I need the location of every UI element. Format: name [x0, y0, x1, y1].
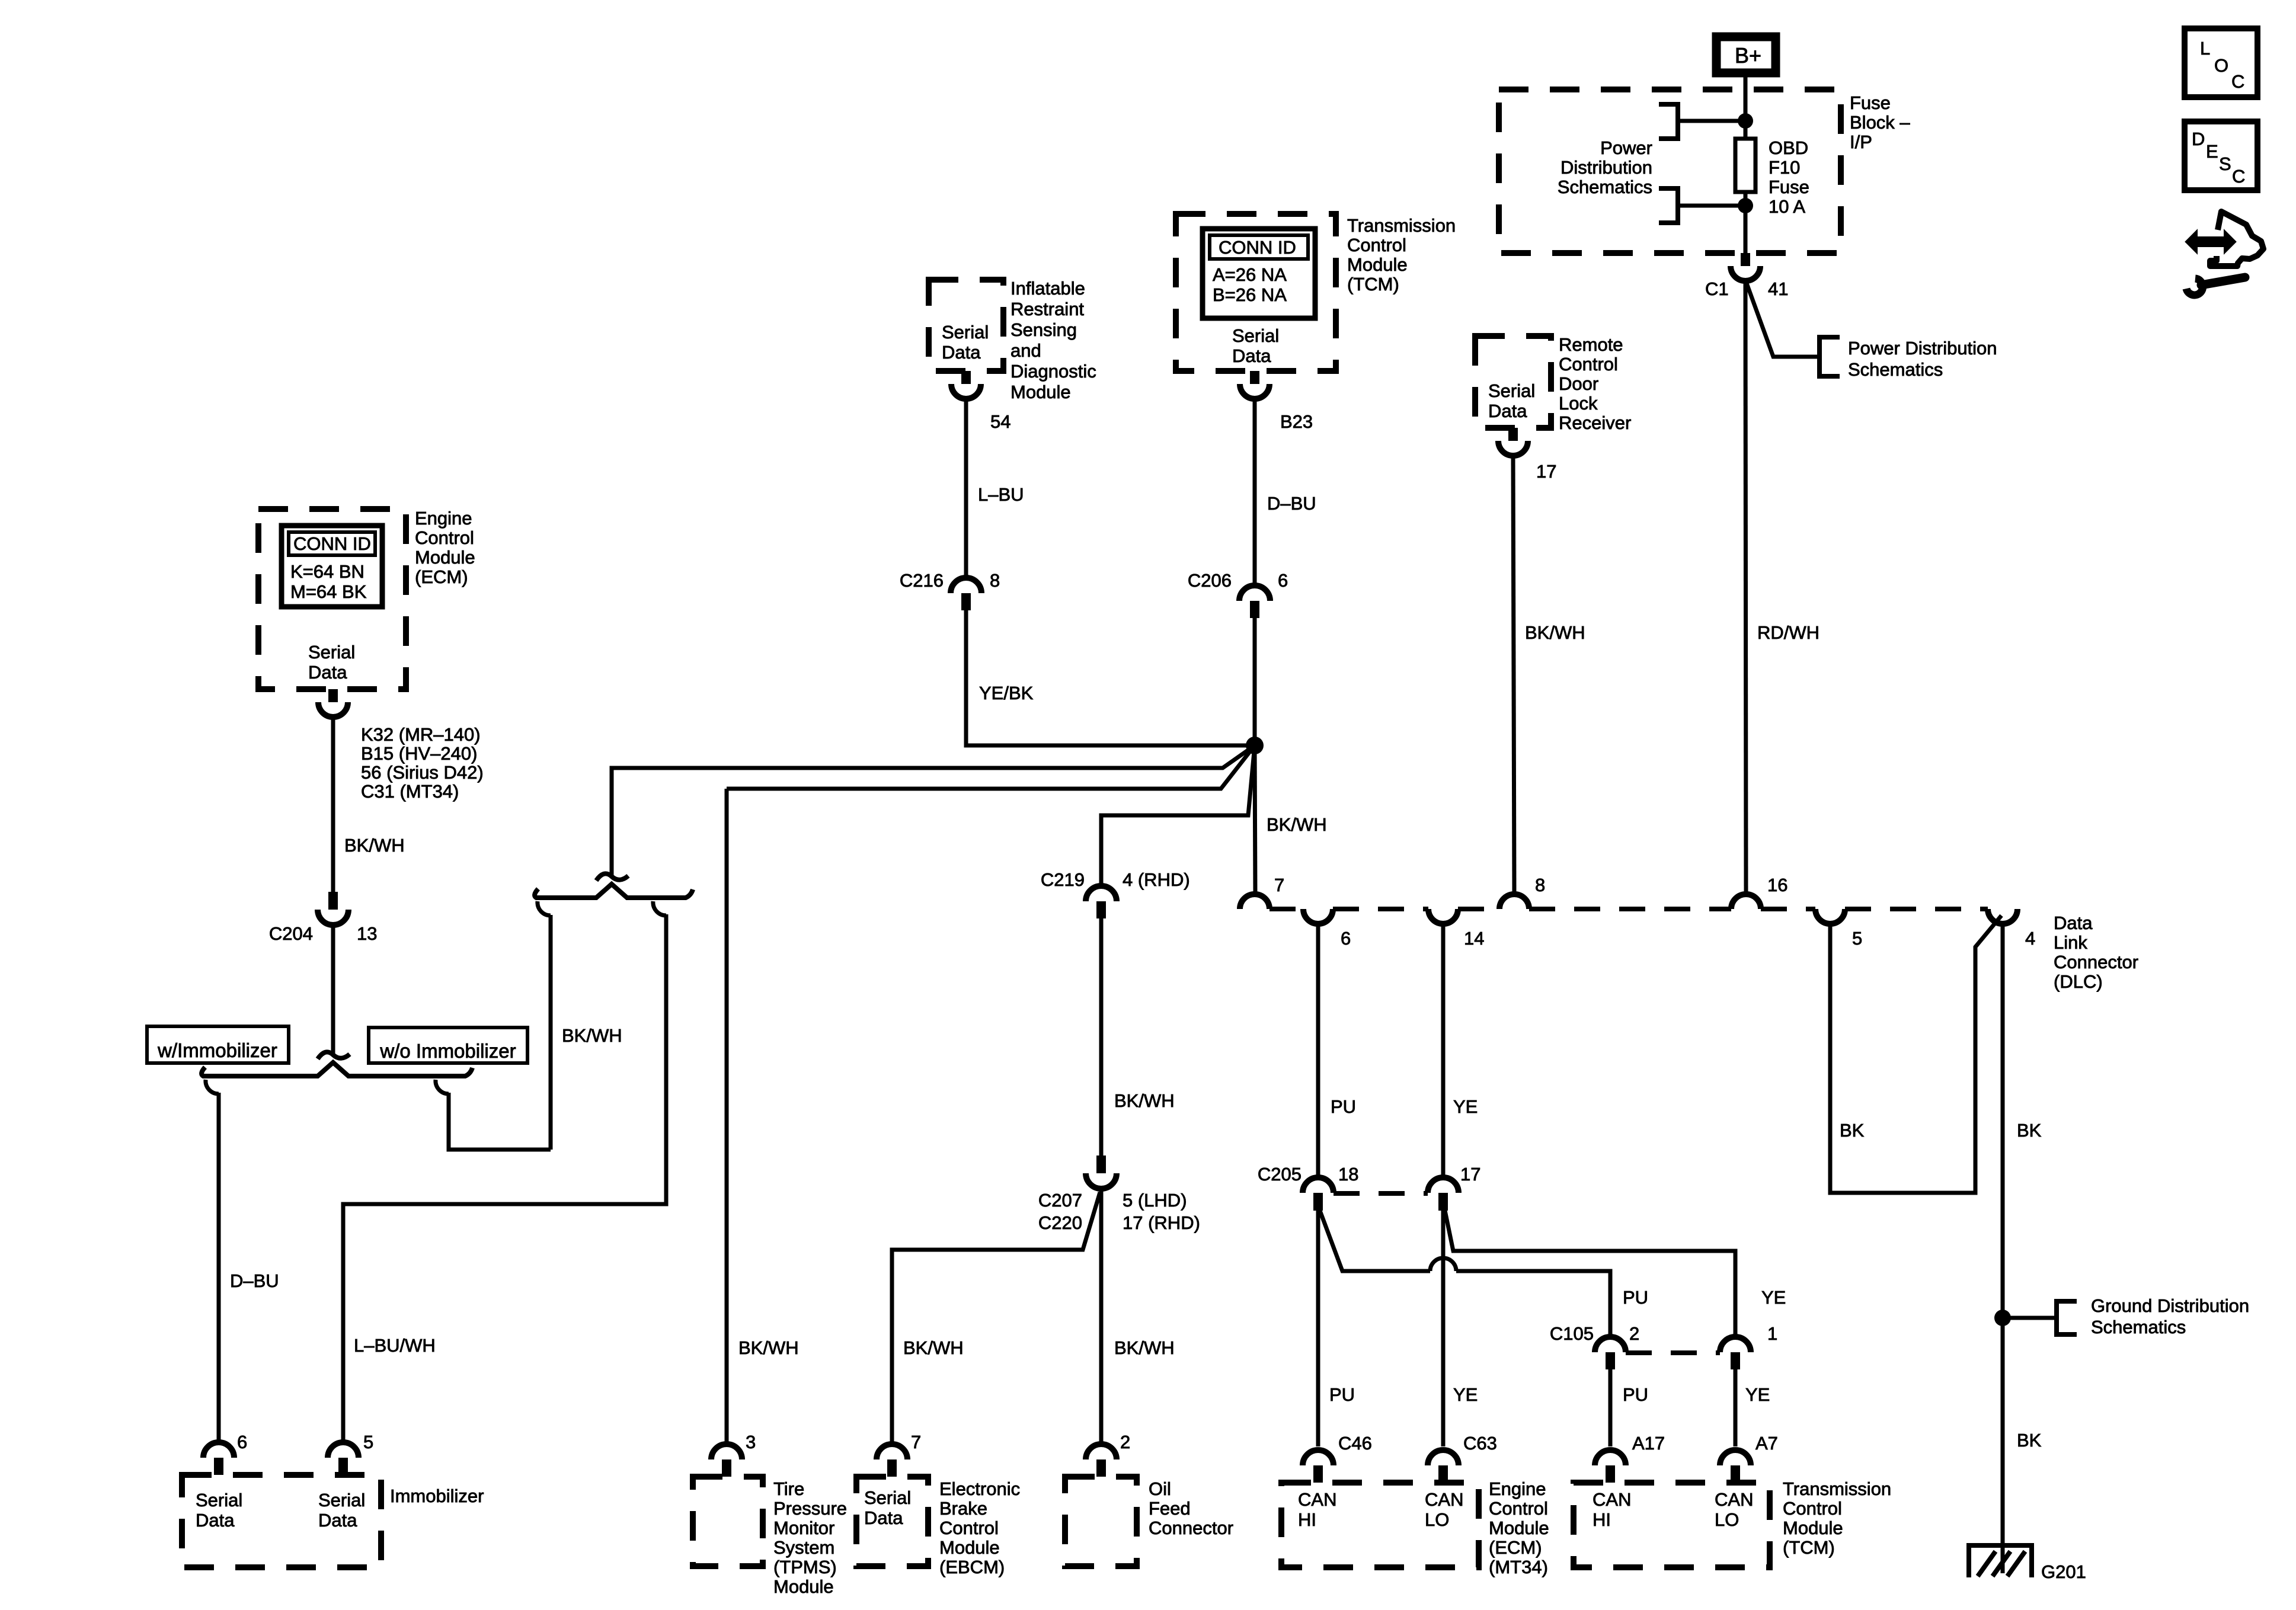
- svg-text:Fuse: Fuse: [1769, 177, 1809, 197]
- svg-text:Connector: Connector: [2054, 952, 2138, 972]
- svg-text:YE: YE: [1745, 1384, 1770, 1405]
- w/o Immobilizer option box: [369, 1028, 527, 1063]
- svg-text:B+: B+: [1735, 43, 1761, 68]
- svg-text:C: C: [2231, 71, 2244, 92]
- svg-text:BK/WH: BK/WH: [738, 1337, 799, 1358]
- connector pin 54: [961, 371, 971, 384]
- LOC box: [2185, 28, 2257, 97]
- EBCM branch wire: [892, 1192, 1100, 1444]
- svg-text:C63: C63: [1463, 1433, 1497, 1454]
- connector pin 7 (EBCM): [877, 1444, 907, 1459]
- connector C205 pin 18: [1303, 1177, 1334, 1193]
- svg-text:Serial: Serial: [196, 1490, 242, 1510]
- svg-text:Feed: Feed: [1149, 1498, 1191, 1519]
- svg-text:HI: HI: [1298, 1509, 1316, 1530]
- svg-text:Data: Data: [864, 1507, 903, 1528]
- svg-text:Schematics: Schematics: [1558, 177, 1652, 197]
- bracket to power distribution (top): [1659, 104, 1678, 139]
- svg-text:4 (RHD): 4 (RHD): [1123, 869, 1190, 890]
- svg-text:18: 18: [1338, 1164, 1358, 1185]
- svg-text:Module: Module: [1011, 382, 1071, 402]
- w/o immobilizer riser BK/WH: [549, 915, 553, 1150]
- svg-text:Electronic: Electronic: [939, 1478, 1020, 1499]
- lower option bus: [202, 1062, 472, 1076]
- svg-text:Monitor: Monitor: [773, 1518, 834, 1538]
- connector pin 2 (oil feed): [1086, 1444, 1117, 1459]
- svg-text:Inflatable: Inflatable: [1011, 278, 1085, 299]
- svg-text:41: 41: [1768, 279, 1788, 299]
- wire RD/WH fuse to DLC 16: [1745, 280, 1746, 895]
- svg-text:56 (Sirius D42): 56 (Sirius D42): [361, 762, 484, 783]
- svg-text:A=26 NA: A=26 NA: [1213, 264, 1287, 285]
- connector below ECM: [328, 689, 338, 702]
- connector C206 pin 6: [1239, 585, 1270, 601]
- junction node: [1738, 113, 1753, 129]
- svg-text:K32 (MR–140): K32 (MR–140): [361, 724, 481, 745]
- svg-text:Sensing: Sensing: [1011, 319, 1077, 340]
- wire PU C105 to A17: [1609, 1369, 1613, 1446]
- svg-text:Module: Module: [1489, 1518, 1549, 1538]
- svg-text:Module: Module: [1347, 254, 1408, 275]
- svg-text:PU: PU: [1623, 1287, 1648, 1308]
- upper option bus: [535, 884, 693, 898]
- svg-text:1: 1: [1767, 1323, 1777, 1344]
- svg-text:CAN: CAN: [1425, 1489, 1463, 1510]
- svg-text:6: 6: [1341, 928, 1351, 949]
- DLC pin 16: [1731, 894, 1761, 909]
- svg-text:5: 5: [1852, 928, 1862, 949]
- svg-text:5: 5: [363, 1432, 373, 1452]
- svg-text:CAN: CAN: [1715, 1489, 1753, 1510]
- svg-text:BK/WH: BK/WH: [1525, 622, 1585, 643]
- dashed link C105: [1626, 1350, 1720, 1355]
- svg-text:Control: Control: [1489, 1498, 1548, 1519]
- svg-text:D: D: [2192, 129, 2205, 149]
- svg-text:Block –: Block –: [1850, 112, 1910, 133]
- CONN ID table (TCM): [1203, 229, 1315, 318]
- svg-text:I/P: I/P: [1850, 132, 1872, 152]
- main serial data junction: [1246, 737, 1264, 754]
- svg-text:Transmission: Transmission: [1347, 215, 1456, 236]
- svg-text:C1: C1: [1705, 279, 1729, 299]
- splice curl at end of upper feed: [596, 873, 628, 881]
- svg-text:5 (LHD): 5 (LHD): [1123, 1190, 1187, 1211]
- svg-text:2: 2: [1629, 1323, 1639, 1344]
- svg-text:Control: Control: [1783, 1498, 1842, 1519]
- svg-text:L: L: [2200, 38, 2210, 59]
- connector pin 5 (immobilizer): [328, 1442, 359, 1458]
- svg-text:YE: YE: [1453, 1384, 1478, 1405]
- svg-text:CONN ID: CONN ID: [293, 533, 371, 554]
- wire YE C205 to C63: [1441, 1211, 1446, 1446]
- wire C206 to junction: [1253, 618, 1257, 745]
- svg-text:C207: C207: [1038, 1190, 1082, 1211]
- svg-text:Connector: Connector: [1149, 1518, 1233, 1538]
- svg-text:Transmission: Transmission: [1783, 1478, 1891, 1499]
- svg-text:Restraint: Restraint: [1011, 299, 1084, 319]
- svg-text:Serial: Serial: [308, 642, 355, 662]
- DESC box: [2185, 121, 2257, 190]
- svg-text:B15 (HV–240): B15 (HV–240): [361, 743, 477, 764]
- svg-text:and: and: [1011, 340, 1041, 361]
- svg-text:7: 7: [911, 1432, 921, 1452]
- branch hook left (to lower bus riser): [538, 901, 551, 916]
- connector pin 6 (immobilizer): [203, 1442, 234, 1458]
- svg-text:BK/WH: BK/WH: [344, 835, 405, 856]
- svg-text:Serial: Serial: [1232, 325, 1279, 346]
- interchange arrow icon: [2186, 212, 2263, 266]
- immobilizer serial data box: [182, 1475, 381, 1567]
- svg-text:C31 (MT34): C31 (MT34): [361, 781, 459, 802]
- svg-text:Module: Module: [415, 547, 475, 568]
- svg-text:BK/WH: BK/WH: [1114, 1337, 1175, 1358]
- svg-text:CAN: CAN: [1298, 1489, 1336, 1510]
- svg-text:Engine: Engine: [1489, 1478, 1546, 1499]
- wire junction to DLC pin 7: [1255, 745, 1255, 896]
- branch to upper splice feed: [612, 745, 1255, 876]
- svg-text:Data: Data: [318, 1510, 357, 1531]
- svg-text:Door: Door: [1559, 373, 1598, 394]
- wire D-BU TCM to C206: [1253, 398, 1257, 585]
- svg-text:8: 8: [990, 570, 1000, 591]
- svg-text:Control: Control: [1559, 354, 1618, 375]
- svg-text:S: S: [2219, 153, 2231, 174]
- svg-text:CAN: CAN: [1593, 1489, 1631, 1510]
- svg-text:(EBCM): (EBCM): [939, 1557, 1005, 1577]
- svg-text:(TPMS): (TPMS): [773, 1557, 837, 1577]
- wrench icon: [2186, 277, 2245, 295]
- svg-text:Serial: Serial: [942, 322, 989, 343]
- svg-text:C46: C46: [1338, 1433, 1372, 1454]
- svg-text:OBD: OBD: [1769, 137, 1808, 158]
- svg-text:BK: BK: [2017, 1120, 2042, 1141]
- svg-text:E: E: [2206, 141, 2218, 162]
- svg-text:G201: G201: [2041, 1561, 2086, 1582]
- svg-text:PU: PU: [1331, 1096, 1356, 1117]
- svg-text:Serial: Serial: [1488, 380, 1535, 401]
- svg-text:(DLC): (DLC): [2054, 971, 2103, 992]
- svg-text:D–BU: D–BU: [230, 1270, 279, 1291]
- bracket to power distribution (bottom): [1659, 188, 1678, 223]
- branch hook right (to serial data pin 5 wire): [653, 901, 666, 916]
- svg-text:Power Distribution: Power Distribution: [1848, 338, 1997, 359]
- svg-text:Link: Link: [2054, 932, 2087, 953]
- svg-text:(ECM): (ECM): [415, 566, 468, 587]
- wire BK/WH ECM to C204: [331, 716, 335, 892]
- svg-text:w/Immobilizer: w/Immobilizer: [157, 1039, 277, 1061]
- svg-text:C219: C219: [1041, 869, 1085, 890]
- svg-text:C220: C220: [1038, 1212, 1082, 1233]
- svg-text:Schematics: Schematics: [1848, 359, 1943, 380]
- svg-text:C205: C205: [1258, 1164, 1302, 1185]
- svg-text:Data: Data: [308, 662, 347, 683]
- svg-text:Fuse: Fuse: [1850, 92, 1891, 113]
- svg-text:Lock: Lock: [1559, 393, 1598, 414]
- wire L-BU: [964, 398, 968, 578]
- connector C63 (CAN LO): [1428, 1450, 1459, 1465]
- remote control door lock receiver box: [1475, 336, 1551, 428]
- svg-text:Data: Data: [942, 342, 981, 363]
- connector C216 pin 8: [951, 578, 981, 593]
- fuse OBD F10: [1735, 139, 1755, 192]
- wire BK/WH C219 to C207: [1099, 918, 1104, 1156]
- svg-text:17: 17: [1460, 1164, 1480, 1185]
- connector A7 (CAN LO): [1720, 1450, 1751, 1465]
- engine control module (ECM)(MT34) box: [1281, 1483, 1479, 1567]
- connector C46 (CAN HI): [1303, 1450, 1334, 1465]
- svg-text:Data: Data: [1232, 345, 1271, 366]
- svg-text:10 A: 10 A: [1769, 196, 1805, 217]
- svg-text:2: 2: [1120, 1432, 1130, 1452]
- svg-text:HI: HI: [1593, 1509, 1611, 1530]
- svg-text:A17: A17: [1632, 1433, 1665, 1454]
- wire PU DLC 6 to C205 18: [1316, 924, 1320, 1177]
- svg-text:BK/WH: BK/WH: [562, 1025, 622, 1046]
- svg-text:6: 6: [237, 1432, 247, 1452]
- svg-text:Control: Control: [415, 527, 474, 548]
- svg-text:BK: BK: [2017, 1430, 2042, 1451]
- wire PU C205 to C46: [1316, 1211, 1320, 1446]
- svg-text:B=26 NA: B=26 NA: [1213, 284, 1287, 305]
- wire BK DLC 4 to ground: [2001, 924, 2005, 1573]
- svg-text:Control: Control: [939, 1518, 999, 1538]
- svg-text:LO: LO: [1715, 1509, 1739, 1530]
- svg-text:C206: C206: [1188, 570, 1232, 591]
- branch to C219 drop: [1101, 745, 1255, 886]
- svg-text:Engine: Engine: [415, 508, 472, 529]
- svg-text:D–BU: D–BU: [1267, 493, 1316, 514]
- branch hook to w/o immobilizer wire: [436, 1080, 449, 1094]
- svg-text:BK: BK: [1840, 1120, 1865, 1141]
- DLC pin 14: [1428, 909, 1458, 924]
- svg-text:14: 14: [1464, 928, 1484, 949]
- svg-text:Oil: Oil: [1149, 1478, 1171, 1499]
- svg-text:K=64 BN: K=64 BN: [290, 561, 364, 582]
- TPMS module box: [693, 1477, 763, 1566]
- connector B23: [1250, 371, 1259, 384]
- wire YE/BK C216 to junction: [966, 610, 1255, 745]
- svg-text:Schematics: Schematics: [2091, 1317, 2186, 1337]
- branch YE to C105 pin 1: [1445, 1211, 1735, 1337]
- svg-text:Tire: Tire: [773, 1478, 804, 1499]
- DLC pin 6: [1303, 909, 1333, 924]
- wire B+ to fuse block: [1744, 77, 1748, 139]
- svg-text:w/o Immobilizer: w/o Immobilizer: [379, 1040, 516, 1062]
- svg-text:YE/BK: YE/BK: [979, 683, 1034, 703]
- branch hook to pin 6 wire: [206, 1080, 219, 1094]
- svg-text:Module: Module: [1783, 1518, 1843, 1538]
- svg-text:BK/WH: BK/WH: [1267, 814, 1327, 835]
- connector C204 pin 13: [328, 892, 338, 910]
- svg-text:A7: A7: [1755, 1433, 1778, 1454]
- DLC pin 7: [1240, 894, 1269, 909]
- svg-text:PU: PU: [1623, 1384, 1648, 1405]
- svg-text:Receiver: Receiver: [1559, 412, 1631, 433]
- splice curl at end of C204 wire: [318, 1052, 350, 1059]
- wire BK/WH receiver to DLC 8: [1513, 455, 1514, 895]
- wire C207 down to oil feed connector: [1099, 1189, 1104, 1444]
- svg-text:Brake: Brake: [939, 1498, 987, 1519]
- svg-text:17 (RHD): 17 (RHD): [1123, 1212, 1200, 1233]
- ground G201: [1966, 1545, 2086, 1582]
- connector pin 3 (TPMS): [711, 1444, 742, 1459]
- junction to ground distribution: [1994, 1310, 2011, 1326]
- svg-text:13: 13: [357, 923, 377, 944]
- svg-text:RD/WH: RD/WH: [1757, 622, 1819, 643]
- svg-text:Serial: Serial: [864, 1487, 911, 1508]
- svg-text:Serial: Serial: [318, 1490, 365, 1510]
- svg-text:C: C: [2232, 166, 2245, 187]
- svg-text:Module: Module: [773, 1576, 834, 1597]
- B+ power symbol: [1716, 37, 1776, 73]
- svg-text:Data: Data: [2054, 913, 2093, 933]
- svg-text:L–BU/WH: L–BU/WH: [354, 1335, 436, 1356]
- w/Immobilizer option box: [147, 1026, 289, 1063]
- svg-text:B23: B23: [1280, 411, 1313, 432]
- svg-text:C105: C105: [1550, 1323, 1594, 1344]
- svg-text:4: 4: [2025, 928, 2035, 949]
- svg-text:System: System: [773, 1537, 834, 1558]
- wire C204 to splice: [331, 925, 335, 1054]
- svg-text:F10: F10: [1769, 157, 1800, 178]
- transmission control module (TCM) box (bottom): [1574, 1483, 1770, 1567]
- svg-text:Control: Control: [1347, 235, 1406, 255]
- connector pin 17: [1508, 428, 1518, 441]
- connector C219 pin 4 (RHD): [1086, 886, 1117, 901]
- svg-text:O: O: [2214, 55, 2228, 76]
- svg-text:CONN ID: CONN ID: [1219, 237, 1296, 258]
- svg-text:6: 6: [1278, 570, 1288, 591]
- svg-text:(MT34): (MT34): [1489, 1557, 1548, 1577]
- svg-text:Ground Distribution: Ground Distribution: [2091, 1295, 2249, 1316]
- svg-text:Data: Data: [196, 1510, 235, 1531]
- DLC pin 8: [1499, 894, 1529, 909]
- connector C1 pin 41: [1741, 253, 1750, 266]
- branch to TPMS riser: [727, 745, 1255, 789]
- svg-text:LO: LO: [1425, 1509, 1449, 1530]
- engine control module (ECM) box: [258, 509, 406, 689]
- connector C105 pin 2: [1595, 1337, 1626, 1352]
- DLC pin 4: [1988, 909, 2017, 924]
- fuse block I/P dashed box: [1499, 89, 1841, 253]
- wire BK DLC 5 loop to pin 4 wire: [1830, 916, 2001, 1193]
- dashed link C205: [1334, 1191, 1428, 1196]
- junction node: [1738, 198, 1753, 213]
- svg-text:BK/WH: BK/WH: [1114, 1090, 1175, 1111]
- data link connector (DLC) dashed bus: [1269, 907, 1988, 911]
- svg-text:Module: Module: [939, 1537, 1000, 1558]
- DLC pin 5: [1815, 909, 1845, 924]
- svg-text:PU: PU: [1329, 1384, 1355, 1405]
- svg-text:Data: Data: [1488, 401, 1527, 421]
- wire YE DLC 14 to C205 17: [1441, 924, 1446, 1177]
- branch PU to C105 pin 2 (hops over YE wire): [1320, 1211, 1430, 1271]
- svg-text:17: 17: [1536, 461, 1556, 482]
- svg-text:3: 3: [746, 1432, 756, 1452]
- svg-text:C204: C204: [269, 923, 313, 944]
- EBCM box: [856, 1477, 928, 1566]
- svg-text:Pressure: Pressure: [773, 1498, 847, 1519]
- svg-text:YE: YE: [1453, 1096, 1478, 1117]
- svg-text:16: 16: [1767, 875, 1787, 895]
- svg-text:(TCM): (TCM): [1783, 1537, 1835, 1558]
- svg-text:Power: Power: [1600, 137, 1652, 158]
- branch to power distribution schematics bracket: [1747, 283, 1819, 357]
- svg-text:BK/WH: BK/WH: [903, 1337, 964, 1358]
- connector C105 pin 1: [1720, 1337, 1751, 1352]
- svg-text:7: 7: [1274, 875, 1284, 895]
- inflatable restraint sensing and diagnostic module box: [929, 280, 1003, 371]
- svg-text:54: 54: [990, 411, 1011, 432]
- svg-text:M=64 BK: M=64 BK: [290, 581, 367, 602]
- connector A17 (CAN HI): [1595, 1450, 1626, 1465]
- svg-text:L–BU: L–BU: [978, 484, 1024, 505]
- svg-text:8: 8: [1535, 875, 1545, 895]
- connector C207/C220 pin 5 (LHD) 17 (RHD): [1096, 1156, 1106, 1173]
- svg-text:Distribution: Distribution: [1560, 157, 1652, 178]
- svg-text:Immobilizer: Immobilizer: [390, 1486, 484, 1506]
- svg-text:(TCM): (TCM): [1347, 274, 1399, 295]
- svg-text:Diagnostic: Diagnostic: [1011, 361, 1096, 382]
- connector C205 pin 17: [1428, 1177, 1459, 1193]
- svg-text:(ECM): (ECM): [1489, 1537, 1542, 1558]
- svg-text:C216: C216: [900, 570, 944, 591]
- transmission control module (TCM) box: [1176, 214, 1336, 371]
- svg-text:Remote: Remote: [1559, 334, 1623, 355]
- svg-text:YE: YE: [1761, 1287, 1786, 1308]
- wire YE C105 to A7: [1734, 1369, 1738, 1446]
- CONN ID table (ECM): [282, 526, 382, 607]
- oil feed connector box: [1065, 1477, 1137, 1566]
